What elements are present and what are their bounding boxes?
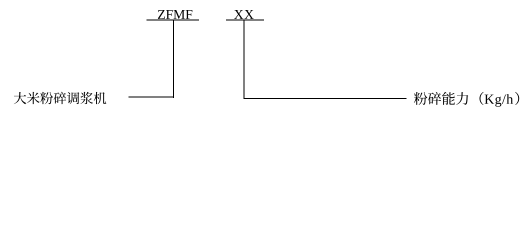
label: 粉碎能力（ (crushing capacity, opening paren) xyxy=(414,92,484,105)
label: ） closing paren xyxy=(515,92,519,105)
label: Kg/h xyxy=(485,94,513,107)
underline under XX xyxy=(226,20,264,21)
label ZFMF (model code) xyxy=(158,10,192,19)
label XX (capacity digits placeholder) xyxy=(234,10,254,19)
label: 大米粉碎调浆机 (rice crushing and slurry mixing machine) xyxy=(14,92,106,104)
wire: leader from ZFMF down and left toward 大米粉碎调浆机 xyxy=(128,21,174,99)
underline under ZFMF xyxy=(147,20,199,21)
wire: leader from XX down and right toward 粉碎能力 xyxy=(244,21,407,100)
